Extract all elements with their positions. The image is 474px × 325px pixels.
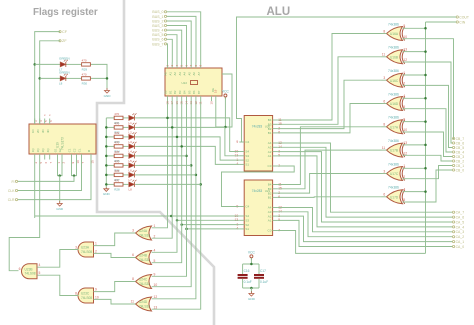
wire CIN to SUB line	[426, 21, 457, 23]
svg-text:5: 5	[154, 259, 156, 263]
svg-text:74LS08: 74LS08	[81, 296, 92, 300]
wire carry adder1 C0 to adder2 C4	[222, 166, 295, 207]
svg-text:470: 470	[114, 179, 119, 183]
svg-text:2: 2	[154, 234, 156, 238]
buffer control pins	[211, 96, 213, 101]
svg-text:2: 2	[403, 175, 405, 179]
svg-text:CA_7: CA_7	[456, 211, 465, 215]
LED L7 GREEN	[60, 62, 66, 67]
svg-text:3D: 3D	[41, 129, 45, 133]
resistor R23	[114, 135, 123, 138]
svg-text:11: 11	[382, 53, 386, 57]
net label FI	[15, 180, 17, 182]
wire sum row 0	[106, 117, 114, 119]
IC U20 74x283 adder	[244, 116, 272, 172]
svg-text:9: 9	[95, 288, 97, 292]
svg-text:B0: B0	[164, 90, 168, 94]
svg-text:CA_6: CA_6	[456, 216, 465, 220]
svg-text:CB_4: CB_4	[456, 150, 465, 154]
wire BUS_3	[167, 26, 187, 63]
svg-text:CA_2: CA_2	[456, 235, 465, 239]
wire COUT loop to adder1 C4	[237, 17, 457, 142]
svg-text:470: 470	[114, 122, 119, 126]
svg-text:CA_1: CA_1	[456, 240, 465, 244]
svg-text:74x386: 74x386	[388, 69, 399, 73]
svg-text:74LS08: 74LS08	[81, 250, 92, 254]
svg-text:11: 11	[131, 300, 135, 304]
junction row 3	[180, 145, 183, 148]
svg-text:S1: S1	[245, 227, 249, 231]
svg-text:R29: R29	[82, 67, 88, 71]
wires sum rows right ends	[139, 155, 186, 157]
wire BUS_2	[167, 21, 192, 63]
XOR gate U17B 74x386	[387, 143, 403, 157]
svg-text:COUT: COUT	[459, 15, 469, 19]
svg-text:74LS32: 74LS32	[139, 304, 150, 308]
svg-text:GND: GND	[103, 192, 111, 196]
svg-text:74LS32: 74LS32	[139, 233, 150, 237]
AND gate U23C	[78, 288, 93, 303]
svg-text:A1: A1	[268, 219, 272, 223]
svg-text:R30: R30	[82, 81, 88, 85]
wire flags D1 from sum row	[34, 160, 36, 219]
svg-text:U19: U19	[56, 142, 60, 148]
svg-text:A5: A5	[187, 72, 191, 76]
svg-text:8: 8	[383, 123, 385, 127]
XOR gate U16A 74x386	[387, 27, 403, 41]
svg-text:10: 10	[403, 35, 407, 39]
svg-text:1: 1	[95, 242, 97, 246]
wires matrix verticals from buffer to OR gates	[153, 103, 168, 228]
svg-text:74LS32: 74LS32	[139, 282, 150, 286]
svg-text:L8: L8	[59, 81, 63, 85]
junction row 2	[176, 136, 179, 139]
svg-text:B2: B2	[173, 90, 177, 94]
svg-text:L6: L6	[129, 168, 133, 172]
LED LED3	[129, 135, 135, 140]
wire ZF	[40, 41, 60, 124]
svg-text:3: 3	[75, 245, 77, 249]
svg-text:CA_3: CA_3	[456, 230, 465, 234]
svg-text:1: 1	[403, 71, 405, 75]
IC U22 74x245 bus buffer	[165, 68, 222, 96]
svg-text:L8: L8	[129, 187, 133, 191]
svg-text:G2: G2	[58, 148, 62, 152]
wire CF	[35, 32, 60, 124]
wire CLR	[18, 160, 91, 200]
svg-text:9: 9	[154, 272, 156, 276]
XOR gate U17A 74x386	[387, 120, 403, 134]
svg-text:74x386: 74x386	[388, 22, 399, 26]
svg-text:470: 470	[114, 169, 119, 173]
wire BUS_5	[167, 35, 177, 63]
junction row 7	[199, 183, 202, 186]
resistor R25	[114, 154, 123, 157]
svg-text:CB_6: CB_6	[456, 141, 465, 145]
net label CLK	[15, 189, 17, 191]
wire XOR upper input	[407, 97, 426, 99]
net labels CA_7..CA_0	[453, 211, 455, 213]
section divider (gray frame)	[97, 0, 214, 325]
wire BUS_0	[167, 12, 201, 63]
svg-text:10: 10	[210, 101, 214, 105]
LED LED1	[129, 116, 135, 121]
svg-text:4: 4	[39, 263, 41, 267]
OR gate U24A	[136, 226, 152, 240]
svg-text:10: 10	[95, 295, 99, 299]
svg-text:L5: L5	[129, 159, 133, 163]
svg-text:74LS32: 74LS32	[139, 258, 150, 262]
resistor R30	[82, 77, 91, 80]
svg-text:74x386: 74x386	[388, 162, 399, 166]
AND gate U23A	[78, 242, 93, 257]
junction row 0	[166, 117, 169, 120]
wire BUS_6	[167, 39, 173, 62]
svg-text:5: 5	[39, 271, 41, 275]
LED LED6	[129, 163, 135, 168]
svg-text:C1: C1	[68, 148, 72, 152]
wire sum row 2	[106, 136, 114, 138]
IC U19 74LS173 flags register	[29, 124, 96, 154]
svg-text:CB_3: CB_3	[456, 155, 465, 159]
svg-text:GREEN: GREEN	[59, 71, 70, 75]
svg-text:A3: A3	[178, 72, 182, 76]
svg-text:U17A: U17A	[390, 125, 399, 129]
svg-text:3: 3	[132, 229, 134, 233]
resistor R27	[114, 173, 123, 176]
OR gate U24B	[136, 251, 152, 265]
XOR gate U17C 74x386	[387, 167, 403, 181]
svg-text:OE: OE	[211, 88, 215, 92]
svg-text:A7: A7	[197, 72, 201, 76]
svg-text:GND: GND	[248, 297, 256, 301]
svg-text:B1: B1	[168, 90, 172, 94]
svg-text:74x283: 74x283	[252, 125, 263, 129]
svg-text:6: 6	[132, 253, 134, 257]
XOR gate U16D 74x386	[387, 97, 403, 111]
svg-text:CIN: CIN	[459, 20, 465, 24]
svg-text:A2: A2	[173, 72, 177, 76]
svg-text:B1: B1	[268, 196, 272, 200]
svg-text:GREEN: GREEN	[59, 57, 70, 61]
LED LED2	[129, 125, 135, 130]
svg-text:B3: B3	[178, 90, 182, 94]
svg-text:470: 470	[114, 150, 119, 154]
svg-text:C16: C16	[244, 269, 250, 273]
LED LED4	[129, 144, 135, 149]
svg-text:L1: L1	[129, 121, 133, 125]
svg-text:CL: CL	[78, 148, 82, 152]
svg-text:C0: C0	[268, 229, 272, 233]
svg-text:L7: L7	[129, 178, 133, 182]
AND gate U23B	[22, 264, 38, 279]
svg-text:VCC: VCC	[222, 90, 230, 94]
svg-text:2: 2	[95, 249, 97, 253]
supply VCC buffer	[224, 94, 227, 97]
wires adder1 S outputs to sum rows	[139, 118, 239, 152]
svg-text:ALU: ALU	[267, 6, 291, 18]
svg-text:VCC: VCC	[248, 250, 256, 254]
junction row 6	[195, 174, 198, 177]
ground flags enable	[59, 201, 61, 203]
svg-text:U17B: U17B	[390, 149, 398, 153]
svg-text:CF: CF	[62, 30, 68, 34]
wire XOR upper input	[407, 121, 426, 123]
LED LED8	[129, 182, 135, 187]
svg-text:3: 3	[383, 169, 385, 173]
svg-text:10: 10	[154, 283, 158, 287]
svg-text:U16A: U16A	[390, 32, 399, 36]
junction row 1	[171, 126, 174, 128]
capacitor C16	[242, 264, 244, 274]
svg-text:74x386: 74x386	[388, 92, 399, 96]
svg-text:2: 2	[403, 82, 405, 86]
svg-text:8: 8	[132, 277, 134, 281]
svg-text:CA_4: CA_4	[456, 225, 465, 229]
svg-text:U17C: U17C	[390, 172, 399, 176]
svg-text:C4: C4	[245, 205, 249, 209]
junction LED rail	[106, 77, 109, 80]
svg-text:12: 12	[403, 151, 407, 155]
svg-text:BUS_7: BUS_7	[152, 42, 163, 46]
wire LED1 row	[35, 63, 60, 65]
wires adder1 A inputs from CA rows	[277, 143, 452, 212]
svg-text:470: 470	[82, 73, 87, 77]
svg-text:6: 6	[383, 193, 385, 197]
wire adder2 C0 to SUB/CIN net	[277, 231, 425, 254]
svg-text:BUS_0: BUS_0	[152, 10, 163, 14]
svg-text:GND: GND	[104, 94, 112, 98]
wires adder2 S outputs left	[35, 215, 240, 217]
svg-text:U16C: U16C	[390, 79, 399, 83]
ground flags LEDs	[106, 88, 108, 90]
svg-text:11: 11	[382, 146, 386, 150]
ground LED column	[105, 187, 107, 189]
wire sum row 3	[106, 145, 114, 147]
wire sum row 4	[106, 155, 114, 157]
net label ZF	[59, 40, 61, 42]
svg-text:B5: B5	[187, 90, 191, 94]
junction ZF-LED2	[38, 77, 41, 80]
svg-text:B6: B6	[192, 90, 196, 94]
svg-text:6: 6	[19, 267, 21, 271]
wire XOR upper input	[407, 51, 426, 53]
OR gate U24D	[136, 297, 152, 311]
svg-text:10: 10	[403, 128, 407, 132]
svg-text:3: 3	[383, 76, 385, 80]
svg-text:L3: L3	[129, 140, 133, 144]
svg-text:CLR: CLR	[8, 198, 15, 202]
svg-text:L4: L4	[129, 149, 133, 153]
svg-text:B1: B1	[268, 131, 272, 135]
svg-text:470: 470	[114, 160, 119, 164]
svg-text:1D: 1D	[31, 129, 35, 133]
svg-text:A6: A6	[192, 72, 196, 76]
supply VCC caps	[250, 255, 253, 258]
svg-text:A1: A1	[268, 154, 272, 158]
wires XOR outputs to adder2 B	[277, 127, 381, 185]
net label COUT	[456, 16, 458, 18]
svg-text:CB_2: CB_2	[456, 159, 465, 163]
svg-text:9: 9	[236, 140, 238, 144]
bus net labels BUS_0-7	[164, 11, 166, 13]
svg-text:BUS_1: BUS_1	[152, 15, 163, 19]
svg-text:CA_5: CA_5	[456, 220, 465, 224]
svg-text:0.1uF: 0.1uF	[260, 280, 268, 284]
svg-text:C4: C4	[245, 140, 249, 144]
svg-text:CLK: CLK	[8, 189, 15, 193]
svg-text:L2: L2	[129, 130, 133, 134]
wire cap bottom rail	[243, 287, 259, 289]
svg-text:BUS_5: BUS_5	[152, 33, 163, 37]
wire LED2 row	[40, 77, 60, 79]
svg-text:C2: C2	[73, 148, 77, 152]
svg-text:A4: A4	[183, 72, 187, 76]
svg-text:9: 9	[403, 24, 405, 28]
wire BUS_4	[167, 30, 182, 62]
svg-text:5: 5	[403, 198, 405, 202]
wire XOR upper input	[407, 167, 426, 169]
svg-text:U16D: U16D	[390, 102, 399, 106]
svg-text:CB_0: CB_0	[456, 168, 465, 172]
resistor R21	[114, 116, 123, 119]
svg-text:ZF: ZF	[62, 39, 67, 43]
resistor R24	[114, 145, 123, 148]
svg-text:13: 13	[403, 141, 407, 145]
wire sum row 6	[106, 174, 114, 176]
LED LED5	[129, 154, 135, 159]
junction row 4	[185, 155, 188, 158]
svg-text:470: 470	[82, 59, 87, 63]
svg-text:2D: 2D	[36, 129, 40, 133]
svg-text:74LS173: 74LS173	[61, 137, 65, 150]
svg-text:A1: A1	[168, 72, 172, 76]
IC U21 74x283 adder	[244, 180, 272, 236]
svg-text:B4: B4	[183, 90, 187, 94]
wire cap top rail	[243, 263, 259, 265]
svg-text:470: 470	[114, 131, 119, 135]
svg-text:4D: 4D	[46, 129, 50, 133]
XOR gate U16C 74x386	[387, 73, 403, 87]
svg-text:S1: S1	[245, 163, 249, 167]
wires XOR lower inputs to CB labels	[407, 39, 454, 139]
svg-text:CB_1: CB_1	[456, 164, 465, 168]
svg-text:BUS_3: BUS_3	[152, 24, 163, 28]
svg-text:8: 8	[383, 29, 385, 33]
svg-text:13: 13	[403, 48, 407, 52]
wire XOR upper input	[407, 27, 426, 29]
svg-text:74x386: 74x386	[388, 116, 399, 120]
svg-text:4: 4	[154, 248, 156, 252]
wire XOR upper input	[407, 144, 426, 146]
LED LED7	[129, 173, 135, 178]
net labels CB_7..CB_0	[453, 137, 455, 139]
svg-text:1: 1	[403, 164, 405, 168]
OR gate U24C	[136, 275, 152, 289]
wire XOR upper input	[407, 191, 426, 193]
net label CLR	[15, 199, 17, 201]
svg-text:4: 4	[403, 94, 405, 98]
wire sum row 1	[106, 126, 114, 128]
svg-text:FI: FI	[11, 180, 14, 184]
svg-text:12: 12	[154, 295, 158, 299]
svg-text:C17: C17	[260, 269, 266, 273]
wire BUS_1	[167, 16, 196, 62]
svg-text:G1: G1	[54, 148, 58, 152]
svg-text:U16B: U16B	[390, 55, 398, 59]
svg-text:CB_7: CB_7	[456, 137, 465, 141]
svg-text:A0: A0	[164, 72, 168, 76]
svg-text:74LS08: 74LS08	[25, 272, 36, 276]
svg-text:U22: U22	[181, 81, 187, 85]
svg-text:470: 470	[114, 112, 119, 116]
svg-text:BUS_6: BUS_6	[152, 38, 163, 42]
svg-text:0.1uF: 0.1uF	[244, 280, 252, 284]
svg-text:13: 13	[154, 305, 158, 309]
junction CF-LED1	[33, 63, 36, 66]
resistor R29	[82, 63, 91, 66]
svg-text:74x386: 74x386	[388, 139, 399, 143]
svg-text:U17D: U17D	[390, 195, 399, 199]
wire sum row 7	[106, 183, 114, 185]
wire U-loop clock pins to FI	[72, 160, 77, 176]
svg-text:CB_5: CB_5	[456, 146, 465, 150]
ground caps	[250, 291, 252, 293]
XOR gate U17D 74x386	[387, 190, 403, 204]
svg-text:9: 9	[403, 118, 405, 122]
wires XOR outputs to adder1 B	[277, 34, 381, 121]
svg-text:6: 6	[383, 99, 385, 103]
net label CIN	[456, 21, 458, 23]
svg-text:BUS_4: BUS_4	[152, 29, 163, 33]
svg-text:Flags register: Flags register	[33, 7, 98, 18]
svg-text:CA_0: CA_0	[456, 245, 465, 249]
wire BUS_7	[166, 44, 169, 63]
svg-text:C0: C0	[268, 164, 272, 168]
wire XOR upper input	[407, 74, 426, 76]
wire LED column rail	[105, 118, 107, 188]
svg-text:GND: GND	[56, 207, 64, 211]
resistor R28	[114, 183, 123, 186]
svg-text:470: 470	[114, 141, 119, 145]
resistor R22	[114, 126, 123, 129]
XOR gate U16B 74x386	[387, 50, 403, 64]
wire SUB line to XOR inputs	[425, 22, 427, 253]
svg-text:1: 1	[154, 224, 156, 228]
svg-text:BUS_2: BUS_2	[152, 19, 163, 23]
net label CF	[59, 31, 61, 33]
wire buffer OE loop	[216, 74, 232, 127]
svg-text:8: 8	[75, 291, 77, 295]
svg-text:74x386: 74x386	[388, 186, 399, 190]
svg-text:R28: R28	[114, 187, 120, 191]
wire CLK	[18, 160, 82, 191]
svg-text:B7: B7	[197, 90, 201, 94]
LED L8 GREEN	[60, 76, 66, 81]
resistor R26	[114, 164, 123, 167]
svg-text:74x283: 74x283	[252, 189, 263, 193]
wire sum row 5	[106, 164, 114, 166]
capacitor C17	[258, 264, 260, 274]
wire flags D2 from zero gate	[9, 160, 40, 271]
svg-text:4: 4	[403, 188, 405, 192]
wire U-loop G1 G2 to ground	[58, 160, 63, 176]
svg-text:12: 12	[403, 58, 407, 62]
junction row 5	[190, 164, 193, 167]
svg-text:74x386: 74x386	[388, 46, 399, 50]
svg-text:5: 5	[403, 105, 405, 109]
wires adder2 A inputs from CA rows	[277, 208, 452, 232]
